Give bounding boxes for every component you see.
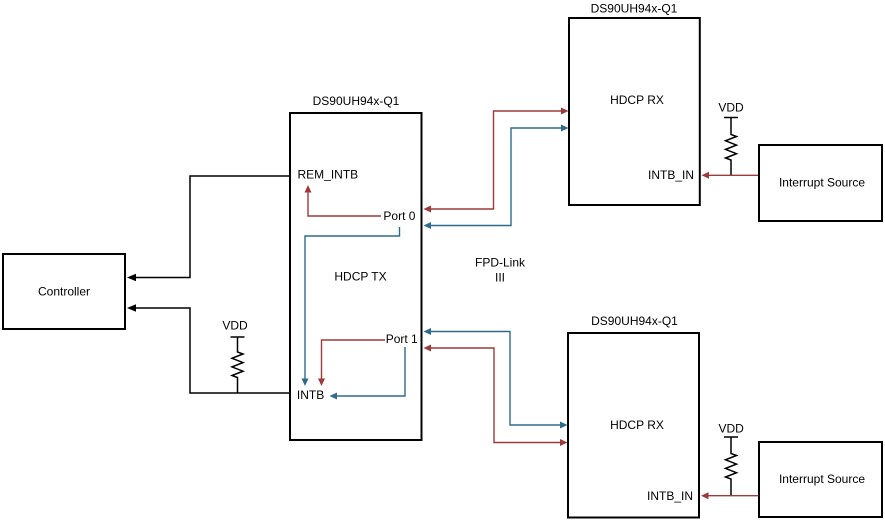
resistor R2 (top right pull-up) [726,118,737,176]
wire red FPD-Link Port 1 (U1 to U3, arrows both ends) [424,345,568,447]
wire blue internal U1 Port 0 to INTB [302,227,400,386]
svg-text:Controller: Controller [38,285,90,299]
svg-text:Port 1: Port 1 [386,332,418,346]
power symbol VDD left [222,319,248,337]
block U2 HDCP RX top (DS90UH94x-Q1) [569,2,700,206]
wire INTB from U1 to Controller [127,304,289,393]
svg-text:HDCP TX: HDCP TX [334,269,386,283]
svg-text:III: III [495,270,505,284]
block U3 HDCP RX bottom (DS90UH94x-Q1) [568,314,699,518]
wire red Interrupt Source bottom to U3 INTB_IN [701,492,759,499]
svg-text:DS90UH94x-Q1: DS90UH94x-Q1 [591,2,678,16]
resistor R1 (left pull-up) [232,337,243,393]
svg-text:HDCP RX: HDCP RX [610,418,664,432]
wire blue internal U1 Port 1 to INTB [330,347,406,400]
svg-text:Interrupt Source: Interrupt Source [779,472,865,486]
svg-text:DS90UH94x-Q1: DS90UH94x-Q1 [591,314,678,328]
wire blue FPD-Link Port 0 (U1 to U2, arrows both ends) [424,125,569,230]
wire red internal U1 Port 1 to INTB [318,340,385,386]
svg-text:Port 0: Port 0 [383,209,415,223]
svg-text:HDCP RX: HDCP RX [610,93,664,107]
power symbol VDD top right [718,100,744,117]
svg-text:INTB_IN: INTB_IN [647,489,693,503]
svg-text:FPD-Link: FPD-Link [475,256,526,270]
svg-text:VDD: VDD [719,422,745,436]
block Controller [3,254,125,329]
block Interrupt Source bottom [759,442,882,517]
net label FPD-Link III [475,256,526,285]
svg-text:DS90UH94x-Q1: DS90UH94x-Q1 [313,94,400,108]
wire red Interrupt Source top to U2 INTB_IN [702,172,759,179]
svg-text:VDD: VDD [222,319,248,333]
block U1 HDCP TX (DS90UH94x-Q1) [290,94,422,440]
wire red internal U1 Port 0 to REM_INTB [305,185,382,216]
power symbol VDD bottom right [719,422,745,437]
wire red FPD-Link Port 0 (U1 to U2, arrows both ends) [424,108,569,213]
svg-text:Interrupt Source: Interrupt Source [779,176,865,190]
block Interrupt Source top [759,145,882,221]
wire blue FPD-Link Port 1 (U1 to U3, arrows both ends) [424,328,568,429]
svg-text:INTB: INTB [297,388,324,402]
svg-text:VDD: VDD [718,100,744,114]
svg-text:INTB_IN: INTB_IN [648,168,694,182]
svg-text:REM_INTB: REM_INTB [298,168,359,182]
resistor R3 (bottom right pull-up) [726,437,737,496]
wire REM_INTB from U1 to Controller [127,176,289,281]
